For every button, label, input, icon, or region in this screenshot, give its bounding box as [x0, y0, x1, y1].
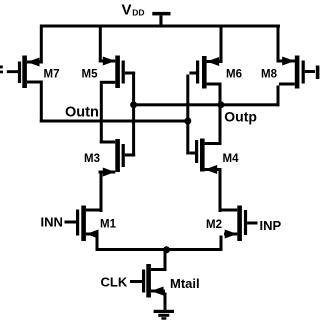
svg-text:M6: M6: [226, 68, 242, 80]
junction Outp / M5-M3 gates: [130, 101, 137, 108]
wire M7 drain to Outn: [40, 84, 43, 123]
wire M5 drain through Outn to M3 drain: [100, 84, 103, 144]
node VDD label: [122, 2, 145, 19]
wire M6 gate / M4 gate to Outn (cross-couple): [186, 75, 189, 155]
svg-text:M1: M1: [100, 218, 117, 230]
wire tail rail: [96, 248, 223, 251]
transistor M8: [279, 56, 315, 89]
svg-text:M8: M8: [261, 68, 278, 80]
svg-text:Outp: Outp: [224, 108, 257, 124]
wire tail node to Mtail drain: [164, 251, 167, 271]
wire VDD rail to M8 source: [277, 28, 280, 63]
transistor M1: [76, 206, 103, 242]
svg-text:Outn: Outn: [65, 104, 99, 120]
power VDD supply stub: [152, 12, 170, 26]
svg-text:M7: M7: [44, 68, 60, 80]
wire VDD rail to M6 source: [220, 28, 223, 63]
wire CLK to M7 gate: [7, 70, 18, 73]
wire INP to M2 gate: [247, 222, 257, 225]
transistor M2: [219, 206, 248, 242]
wire M2 source to tail node: [220, 236, 223, 251]
svg-text:M4: M4: [223, 153, 240, 165]
transistor M7: [18, 56, 43, 89]
svg-text:M2: M2: [206, 219, 222, 231]
node CLK (clipped at right edge): [316, 66, 320, 80]
wire CLK to Mtail gate: [130, 280, 142, 283]
wire M5 gate / M3 gate to Outp (cross-couple): [132, 75, 135, 157]
transistor M4: [189, 139, 221, 175]
svg-text:CLK: CLK: [101, 274, 128, 289]
svg-text:Mtail: Mtail: [170, 276, 200, 291]
wire M1 source to tail node: [96, 236, 99, 251]
wire Outn rail: [40, 120, 190, 123]
wire VDD rail to M5 source: [99, 28, 102, 63]
svg-text:DD: DD: [132, 8, 144, 18]
junction Outp / M6-M4 drains: [217, 101, 224, 108]
transistor M5: [99, 56, 135, 89]
wire VDD rail: [40, 25, 280, 28]
wire INN to M1 gate: [65, 221, 77, 224]
transistor M3: [99, 139, 136, 177]
transistor Mtail: [142, 264, 167, 298]
ground: [154, 310, 174, 320]
svg-text:M3: M3: [84, 153, 100, 165]
svg-text:M5: M5: [82, 68, 99, 80]
wire M6 drain through Outp to M4 drain: [219, 86, 222, 146]
transistor M6: [189, 56, 222, 89]
junction Outn / M6-M4 gates: [184, 118, 191, 125]
node CLK (clipped at left edge): [0, 66, 3, 74]
wire Mtail source to ground: [164, 293, 167, 310]
svg-text:INP: INP: [260, 218, 282, 233]
wire M4 source to M2 drain: [219, 171, 222, 212]
svg-text:V: V: [122, 2, 132, 19]
wire M3 source to M1 drain: [100, 174, 103, 213]
wire Outp rail: [132, 103, 279, 106]
junction tail / Mtail drain: [163, 246, 170, 253]
svg-text:INN: INN: [41, 214, 63, 229]
wire VDD rail to M7 source: [40, 28, 43, 64]
wire M8 drain to Outp: [277, 86, 280, 107]
